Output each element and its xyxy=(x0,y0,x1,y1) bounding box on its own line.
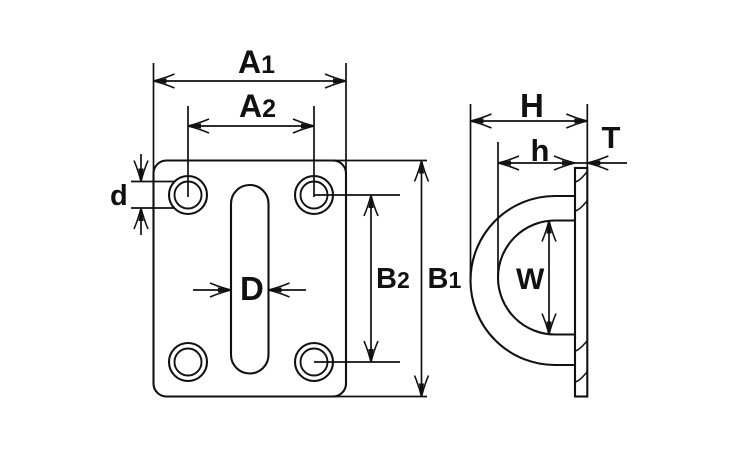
arrow B1 bottom pointing down xyxy=(415,376,429,397)
hole bottom-right outer xyxy=(295,343,333,381)
svg-text:H: H xyxy=(520,87,544,124)
dimension A1 extension line left xyxy=(153,63,155,176)
dimension A1 line xyxy=(154,80,347,82)
dimension H extension line right xyxy=(586,104,588,168)
dimension B1 extension line top xyxy=(331,160,427,162)
eye arch outer contour xyxy=(471,196,575,365)
dimension H extension line left xyxy=(470,104,472,280)
hole top-left inner xyxy=(175,182,202,209)
dimension B2 extension line bottom xyxy=(314,361,400,363)
arrow h left xyxy=(498,156,519,170)
hole top-right outer xyxy=(295,176,333,214)
dimension h line xyxy=(498,162,575,164)
hole top-left outer xyxy=(169,176,207,214)
arrow B2 top pointing up xyxy=(364,195,378,216)
dimension W line xyxy=(548,221,550,335)
svg-text:d: d xyxy=(110,180,128,212)
arrow W top pointing up xyxy=(542,221,556,242)
arrow A2 right xyxy=(293,119,314,133)
svg-text:D: D xyxy=(240,270,264,307)
label H xyxy=(520,87,544,124)
arrow H right xyxy=(566,114,587,128)
dimension d lower arrow shaft xyxy=(140,208,142,235)
dimension d upper arrow shaft xyxy=(140,154,142,182)
hole top-right inner xyxy=(301,182,328,209)
label W xyxy=(516,263,545,296)
eye arch inner contour xyxy=(498,221,575,335)
arrow A1 left xyxy=(154,74,175,88)
dimension d top tangent line xyxy=(131,181,175,183)
hole bottom-left inner xyxy=(175,349,202,376)
dimension A2 extension line right xyxy=(313,106,315,197)
arrow W bottom pointing down xyxy=(542,314,556,335)
dimension A2 line xyxy=(188,125,314,127)
side view plate xyxy=(575,168,587,397)
svg-text:B1: B1 xyxy=(428,263,462,295)
dimension B2 extension line top xyxy=(314,194,400,196)
dimension A2 extension line left xyxy=(187,106,189,197)
arrow D right pointing left xyxy=(269,283,290,297)
break mark 2 on side plate xyxy=(576,201,588,211)
plate front view outline xyxy=(154,161,347,397)
svg-text:A1: A1 xyxy=(238,44,275,80)
label A2 xyxy=(239,88,276,124)
dimension h extension line left xyxy=(497,142,499,277)
arrow T pointing left at plate right face xyxy=(587,156,608,170)
slot (center oblong hole) xyxy=(231,185,269,374)
dimension d bottom tangent line xyxy=(131,207,175,209)
arrow D left pointing right xyxy=(210,283,231,297)
dimension B1 line xyxy=(421,161,423,397)
arrow A2 left xyxy=(188,119,209,133)
break mark 4 on side plate xyxy=(576,372,588,382)
arrow d bottom pointing up xyxy=(134,208,148,229)
hole bottom-right inner xyxy=(301,349,328,376)
svg-text:A2: A2 xyxy=(239,88,276,124)
svg-text:T: T xyxy=(602,120,621,155)
label d xyxy=(110,180,128,212)
dimension B2 line xyxy=(370,195,372,362)
arrow h right xyxy=(554,156,575,170)
dimension H line xyxy=(471,120,588,122)
arrow B1 top pointing up xyxy=(415,161,429,182)
dimension line segment across plate between h and T arrows xyxy=(575,162,587,164)
label B2 xyxy=(376,263,410,295)
label B1 xyxy=(428,263,462,295)
dimension D left arrow shaft xyxy=(193,289,231,291)
label A1 xyxy=(238,44,275,80)
arrow d top pointing down xyxy=(134,161,148,182)
dimension A1 extension line right xyxy=(345,63,347,176)
svg-text:W: W xyxy=(516,263,545,296)
label T xyxy=(602,120,621,155)
label h xyxy=(531,133,550,168)
arrow A1 right xyxy=(325,74,346,88)
arrow B2 bottom pointing down xyxy=(364,341,378,362)
arrow H left xyxy=(471,114,492,128)
dimension B1 extension line bottom xyxy=(331,396,427,398)
label D xyxy=(240,270,264,307)
svg-text:B2: B2 xyxy=(376,263,410,295)
hole bottom-left outer xyxy=(169,343,207,381)
break mark 1 on side plate xyxy=(576,172,588,182)
dimension T arrow shaft right xyxy=(587,162,627,164)
break mark 3 on side plate xyxy=(576,341,588,351)
dimension D right arrow shaft xyxy=(269,289,307,291)
svg-text:h: h xyxy=(531,133,550,168)
